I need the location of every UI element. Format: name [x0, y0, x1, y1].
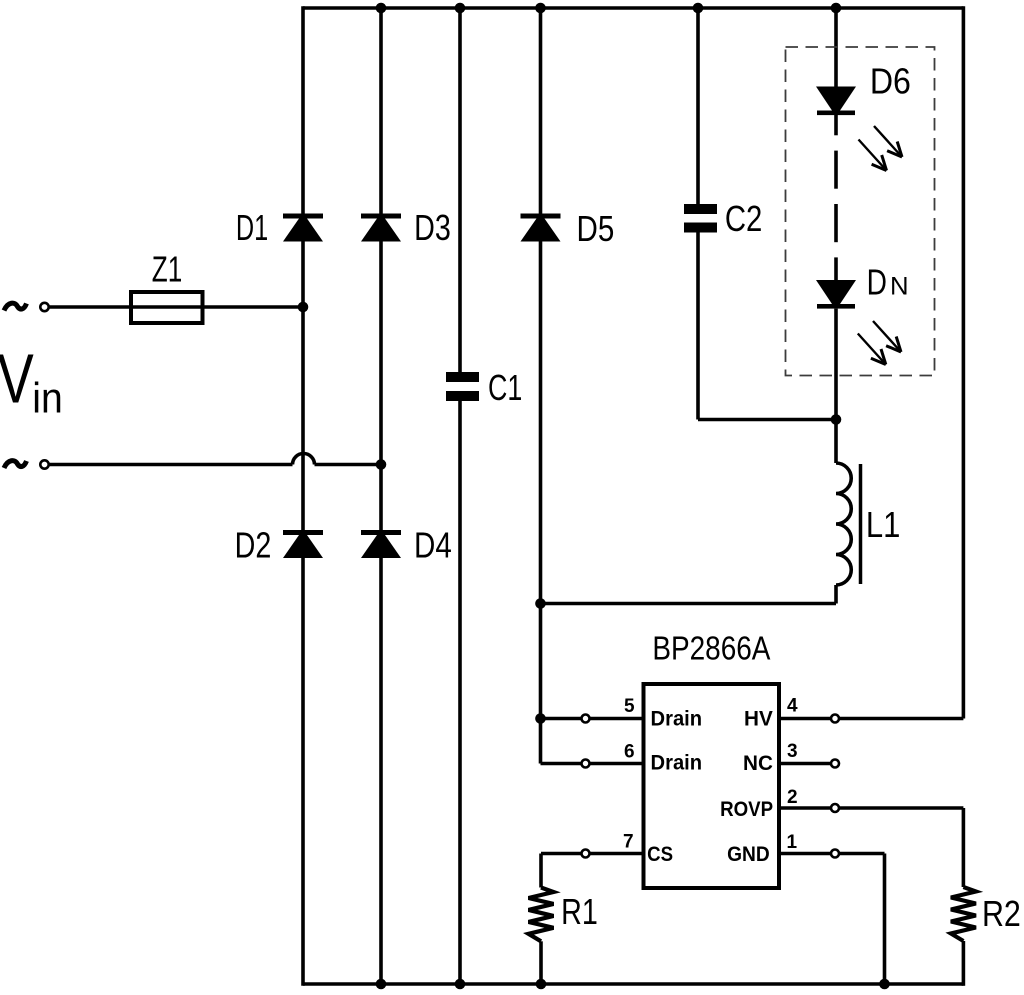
- svg-text:GND: GND: [727, 843, 770, 866]
- svg-text:6: 6: [624, 742, 635, 763]
- svg-text:Z1: Z1: [152, 249, 182, 289]
- svg-text:N: N: [890, 273, 909, 301]
- svg-text:D3: D3: [414, 208, 451, 248]
- svg-text:5: 5: [624, 696, 635, 717]
- svg-text:D2: D2: [235, 525, 272, 565]
- svg-text:D1: D1: [236, 208, 268, 249]
- svg-text:4: 4: [787, 696, 798, 717]
- svg-text:D6: D6: [870, 62, 911, 102]
- svg-text:7: 7: [623, 832, 634, 853]
- svg-text:V: V: [0, 340, 34, 418]
- svg-text:R1: R1: [561, 892, 598, 932]
- svg-text:BP2866A: BP2866A: [652, 629, 770, 667]
- svg-text:D5: D5: [577, 208, 615, 248]
- svg-text:C1: C1: [488, 367, 522, 408]
- svg-text:in: in: [32, 374, 62, 422]
- svg-text:CS: CS: [647, 843, 673, 866]
- svg-text:R2: R2: [982, 895, 1021, 935]
- svg-text:3: 3: [787, 741, 798, 762]
- svg-text:HV: HV: [744, 707, 773, 730]
- svg-text:L1: L1: [866, 506, 900, 546]
- svg-text:Drain: Drain: [651, 707, 703, 730]
- svg-text:2: 2: [787, 787, 798, 808]
- svg-text:C2: C2: [725, 198, 762, 239]
- svg-text:Drain: Drain: [651, 751, 703, 774]
- svg-text:1: 1: [787, 832, 798, 853]
- svg-text:NC: NC: [743, 752, 773, 775]
- svg-text:D: D: [867, 262, 887, 302]
- svg-text:D4: D4: [414, 525, 452, 565]
- svg-text:ROVP: ROVP: [720, 798, 773, 821]
